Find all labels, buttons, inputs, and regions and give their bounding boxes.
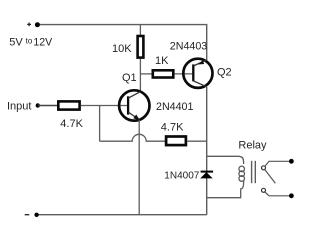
- resistor R3 4.7K input (body): [58, 101, 79, 109]
- svg-text:2N4403: 2N4403: [170, 40, 207, 52]
- wire switch NO to terminal: [265, 192, 289, 196]
- relay coil loops: [239, 166, 245, 181]
- svg-text:5V: 5V: [9, 36, 23, 48]
- label - (negative terminal): [25, 214, 30, 216]
- junction dot ground terminal: [34, 213, 38, 217]
- svg-text:to: to: [26, 37, 33, 46]
- diode D1 1N4007 (triangle): [200, 172, 213, 178]
- wire Q1 emitter to ground rail: [138, 120, 140, 215]
- svg-text:Input: Input: [7, 101, 31, 113]
- relay switch armature: [265, 169, 276, 183]
- wire bottom ground rail: [37, 214, 207, 216]
- resistor R4 4.7K feedback (body): [166, 137, 186, 146]
- wire Q2 collector down to ground rail through diode node: [206, 87, 208, 215]
- relay coil top wire: [207, 156, 244, 164]
- wire top positive supply rail: [36, 25, 207, 61]
- wire feedback horizontal with hop over emitter: [100, 134, 165, 141]
- resistor R1 10K (body): [138, 36, 144, 58]
- svg-text:Relay: Relay: [238, 139, 267, 151]
- svg-text:Q2: Q2: [217, 66, 232, 78]
- svg-text:4.7K: 4.7K: [60, 118, 83, 130]
- terminal dot top: [289, 159, 294, 164]
- svg-text:1K: 1K: [155, 55, 169, 67]
- svg-text:10K: 10K: [112, 43, 132, 55]
- svg-text:Q1: Q1: [122, 72, 137, 84]
- wire switch common to terminal: [265, 161, 289, 166]
- wire 10K to rail: [139, 25, 141, 35]
- diode D1 1N4007 (cathode bar): [201, 171, 214, 173]
- relay switch NO contact circle: [262, 188, 266, 192]
- terminal dot bottom: [289, 193, 294, 198]
- svg-text:12V: 12V: [33, 36, 53, 48]
- resistor R2 1K (body): [153, 70, 174, 77]
- junction dot supply terminal: [35, 22, 40, 27]
- transistor Q1 2N4401 (NPN): [119, 90, 149, 120]
- relay coil bottom wire: [207, 181, 244, 198]
- wire node to 1K: [140, 73, 151, 75]
- wire 1K to Q2 base: [174, 73, 192, 75]
- wire 10K bottom to Q1 collector node: [139, 59, 141, 93]
- wire R4 to collector line: [187, 140, 207, 142]
- svg-text:2N4401: 2N4401: [156, 101, 193, 113]
- label + (positive terminal): [27, 23, 31, 27]
- svg-text:1N4007: 1N4007: [164, 170, 199, 181]
- relay core bars: [252, 161, 256, 183]
- wire R3 to Q1 base: [81, 105, 127, 107]
- junction dot input terminal: [36, 103, 40, 107]
- wire input to R3: [38, 105, 58, 107]
- wire feedback drop at node: [99, 106, 101, 142]
- svg-text:4.7K: 4.7K: [161, 121, 184, 133]
- transistor Q2 2N4403 (PNP): [183, 59, 212, 88]
- relay switch common contact circle: [262, 166, 266, 170]
